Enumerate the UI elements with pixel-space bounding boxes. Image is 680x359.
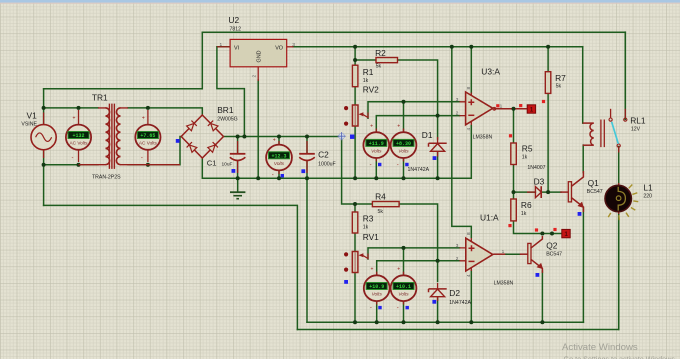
ground symbol bbox=[230, 192, 245, 199]
resistor R6 1k bbox=[511, 199, 517, 221]
wire inner bottom gnd bus bbox=[307, 321, 583, 323]
node R7 Q1 base bbox=[546, 190, 550, 194]
wire rail1 drop to relay contact bbox=[624, 32, 626, 119]
transistor Q2 BC547 bbox=[528, 236, 543, 273]
svg-text:1k: 1k bbox=[521, 211, 527, 217]
wire lamp bottom drop bbox=[618, 212, 620, 330]
svg-text:2: 2 bbox=[456, 256, 459, 262]
svg-text:+132: +132 bbox=[72, 133, 84, 139]
node U1 pin8 rail2 bbox=[450, 45, 454, 49]
probe squares red bbox=[496, 100, 556, 232]
wire VM-12V pins bbox=[278, 137, 280, 179]
svg-text:+11.9: +11.9 bbox=[369, 141, 384, 147]
svg-text:3: 3 bbox=[456, 97, 459, 103]
svg-text:VI: VI bbox=[234, 45, 239, 51]
wire R2 left bbox=[355, 59, 376, 61]
relay RL1 contact bbox=[609, 109, 627, 153]
wire R2 right to D1 column bbox=[398, 60, 438, 139]
svg-text:8: 8 bbox=[466, 232, 472, 235]
terminal box 1 upper bbox=[527, 105, 535, 114]
wire R5 top bbox=[513, 109, 515, 143]
svg-text:R4: R4 bbox=[375, 192, 386, 202]
wire R4 right to D2 column bbox=[399, 204, 438, 282]
node VM1 top bbox=[77, 106, 81, 110]
node VM-C bus bbox=[375, 320, 379, 324]
svg-text:Volts: Volts bbox=[274, 161, 285, 166]
origin marker bbox=[338, 132, 346, 140]
wire secondary bottom to BR1 left bbox=[128, 137, 182, 165]
wire relay contact riser bbox=[624, 32, 626, 119]
svg-text:-: - bbox=[370, 162, 372, 168]
svg-text:U1:A: U1:A bbox=[480, 213, 499, 223]
wire Q1 emitter drop bbox=[582, 208, 584, 323]
svg-text:220: 220 bbox=[643, 193, 652, 199]
wire rail2 drop to U1 pin8 bbox=[452, 47, 472, 238]
svg-text:Volts: Volts bbox=[398, 292, 409, 297]
svg-text:Volts: Volts bbox=[398, 149, 409, 154]
svg-text:R6: R6 bbox=[521, 200, 532, 210]
svg-text:L1: L1 bbox=[643, 182, 653, 192]
svg-text:-: - bbox=[272, 173, 274, 179]
wire U3 pin8 riser bbox=[470, 47, 472, 93]
svg-text:8: 8 bbox=[466, 87, 472, 90]
wire VM-D bottom bbox=[403, 302, 405, 323]
svg-text:C2: C2 bbox=[318, 150, 329, 160]
window top edge bar bbox=[0, 0, 680, 3]
svg-text:R2: R2 bbox=[375, 48, 386, 58]
svg-text:Q2: Q2 bbox=[546, 241, 558, 251]
voltmeter VM3 +12.3 bbox=[266, 138, 292, 179]
opamp U1:A bbox=[460, 238, 493, 271]
wire R3 to RV1 bbox=[354, 233, 356, 252]
svg-text:+: + bbox=[73, 116, 76, 122]
svg-text:4: 4 bbox=[466, 128, 472, 131]
svg-text:D3: D3 bbox=[534, 177, 545, 187]
wire gnd bus bbox=[202, 126, 471, 179]
node D1 bottom bbox=[436, 176, 440, 180]
svg-text:+12.3: +12.3 bbox=[271, 154, 286, 160]
node R2 R1 junction bbox=[353, 58, 357, 62]
node U2 gnd bbox=[256, 176, 260, 180]
svg-text:2: 2 bbox=[251, 75, 257, 78]
wire primary bottom row bbox=[44, 164, 98, 166]
node V1 top bbox=[42, 106, 46, 110]
wire RV2 bottom to gnd bus bbox=[354, 126, 356, 178]
svg-text:R1: R1 bbox=[363, 67, 374, 77]
svg-text:BR1: BR1 bbox=[217, 105, 234, 115]
wire U3 output row bbox=[495, 108, 528, 110]
lamp L1 220 bbox=[605, 183, 638, 220]
svg-text:Volts: Volts bbox=[372, 292, 383, 297]
voltmeter VM-C +10.9 bbox=[364, 267, 390, 312]
svg-text:5k: 5k bbox=[376, 64, 382, 70]
wire RV2 wiper to U3 pin3 bbox=[368, 102, 460, 119]
svg-text:+: + bbox=[397, 267, 400, 273]
node U1 pin4 bus bbox=[469, 320, 473, 324]
wire V1 top riser to mains row bbox=[43, 89, 45, 125]
wire rail2 regulated bbox=[293, 46, 583, 48]
svg-text:R5: R5 bbox=[522, 144, 533, 154]
wire VM-A bottom bbox=[375, 158, 377, 178]
bridge BR1 2W005G bbox=[181, 115, 223, 158]
svg-text:GND: GND bbox=[257, 50, 263, 62]
svg-text:1N4007: 1N4007 bbox=[527, 165, 545, 171]
wire U3 pin2 row bbox=[376, 116, 459, 132]
wire D3 anode bbox=[514, 191, 536, 193]
node VM2 bottom bbox=[146, 163, 150, 167]
wire secondary top row to BR1 top bbox=[128, 108, 202, 115]
node V1 bottom bbox=[42, 163, 46, 167]
wire V1 bottom riser bbox=[43, 150, 45, 205]
svg-text:R3: R3 bbox=[363, 214, 374, 224]
svg-text:+8.30: +8.30 bbox=[396, 141, 411, 147]
diode D3 1N4007 bbox=[527, 186, 541, 198]
node Q2 emitter bus bbox=[540, 320, 544, 324]
node VM3 bottom bbox=[277, 176, 281, 180]
svg-text:D2: D2 bbox=[449, 288, 460, 298]
svg-text:-: - bbox=[141, 156, 143, 162]
watermark Activate Windows bbox=[562, 342, 677, 359]
svg-text:+10.1: +10.1 bbox=[396, 284, 411, 290]
regulator U2 7812 bbox=[217, 39, 294, 81]
wire R1 to RV2 bbox=[354, 87, 356, 105]
svg-text:R7: R7 bbox=[555, 73, 566, 83]
wire RV1 bottom to bus bbox=[354, 273, 356, 323]
wire R5 to R6 bbox=[513, 165, 515, 200]
node VM-B bottom bbox=[402, 176, 406, 180]
wire U1 output to Q2 base bbox=[494, 253, 506, 255]
wire DC+ from BR1 right bbox=[224, 136, 342, 138]
voltmeter VM-B +8.30 bbox=[391, 124, 417, 169]
svg-text:1: 1 bbox=[220, 42, 223, 48]
svg-text:7812: 7812 bbox=[230, 27, 242, 33]
voltmeter VM2 AC +7.65 bbox=[135, 110, 160, 162]
marker squares blue bbox=[176, 135, 582, 310]
svg-text:-: - bbox=[397, 162, 399, 168]
svg-text:LM358N: LM358N bbox=[473, 134, 493, 140]
wire rail1 mains top rail bbox=[202, 31, 625, 33]
svg-text:+: + bbox=[370, 124, 373, 130]
relay RL1 coil bbox=[583, 120, 605, 148]
wire U2 VI riser bbox=[217, 47, 245, 137]
svg-text:1: 1 bbox=[502, 249, 505, 255]
svg-text:1: 1 bbox=[500, 104, 503, 110]
wire R7 top riser bbox=[547, 47, 549, 72]
zener D1 1N4742A bbox=[429, 137, 447, 157]
wire outer bottom return to lamp bbox=[297, 212, 618, 330]
svg-text:AC Volts: AC Volts bbox=[139, 141, 158, 146]
svg-text:VO: VO bbox=[275, 45, 283, 51]
zener D2 1N4742A bbox=[429, 283, 447, 301]
svg-text:BC547: BC547 bbox=[587, 189, 603, 195]
svg-text:RV1: RV1 bbox=[363, 232, 379, 242]
svg-text:-: - bbox=[397, 305, 399, 311]
svg-text:3: 3 bbox=[456, 243, 459, 249]
node R7 rail2 bbox=[546, 45, 550, 49]
wire C1 pins bbox=[237, 137, 239, 179]
capacitor C1 10uF bbox=[230, 141, 246, 173]
source V1 VSINE bbox=[31, 113, 56, 159]
node pin2 D2 bbox=[436, 259, 440, 263]
svg-text:+7.65: +7.65 bbox=[140, 133, 155, 139]
node terminal stub bbox=[550, 232, 554, 236]
svg-text:+: + bbox=[142, 116, 145, 122]
voltmeter VM-D +10.1 bbox=[391, 267, 417, 312]
resistor R7 5k bbox=[545, 72, 551, 94]
svg-text:4: 4 bbox=[466, 274, 472, 277]
svg-text:+: + bbox=[397, 124, 400, 130]
node VM3 top bbox=[277, 135, 281, 139]
node U3 out R5 bbox=[512, 107, 516, 111]
transformer TR1 TRAN-2P2S bbox=[79, 104, 181, 169]
pot RV1 bbox=[344, 252, 368, 273]
node R3 R4 bbox=[353, 202, 357, 206]
wire R7 bottom to Q1 base node bbox=[547, 93, 549, 192]
wire mains feed across top bbox=[44, 32, 203, 89]
resistor R5 1k bbox=[511, 143, 517, 165]
wire relay coil bottom to Q1 collector bbox=[582, 145, 584, 172]
svg-text:5k: 5k bbox=[556, 83, 562, 89]
svg-text:10uF: 10uF bbox=[222, 162, 233, 168]
svg-text:BC547: BC547 bbox=[546, 251, 562, 257]
node U3 pin8 rail2 bbox=[469, 45, 473, 49]
wire DC+ jog down to R4 row bbox=[342, 137, 373, 205]
wire C2 pins bbox=[306, 137, 308, 179]
svg-text:AC Volts: AC Volts bbox=[70, 141, 89, 146]
node R5 R6 D3 bbox=[512, 190, 516, 194]
voltmeter VM-A +11.9 bbox=[363, 124, 389, 169]
wire R6 bottom row bbox=[514, 221, 563, 234]
svg-text:C1: C1 bbox=[207, 159, 217, 168]
svg-text:-: - bbox=[72, 156, 74, 162]
resistor R3 1k bbox=[352, 212, 358, 233]
node C2 top bbox=[305, 135, 309, 139]
pot RV2 bbox=[344, 105, 368, 126]
node C2 bottom bbox=[305, 176, 309, 180]
wire U2 GND drop bbox=[257, 80, 259, 178]
svg-text:2: 2 bbox=[456, 111, 459, 117]
svg-text:TR1: TR1 bbox=[92, 93, 108, 103]
svg-text:-: - bbox=[370, 305, 372, 311]
svg-text:+: + bbox=[371, 267, 374, 273]
node pin3 VM-D bbox=[402, 246, 406, 250]
svg-text:5k: 5k bbox=[378, 209, 384, 215]
node RV2 bottom bbox=[353, 176, 357, 180]
wire VM-B bottom bbox=[403, 158, 405, 178]
svg-text:Q1: Q1 bbox=[588, 178, 600, 188]
svg-text:LM358N: LM358N bbox=[494, 280, 514, 286]
resistor R1 1k bbox=[352, 65, 358, 87]
svg-text:U3:A: U3:A bbox=[481, 67, 500, 77]
node C1 bottom gnd bbox=[236, 176, 240, 180]
svg-text:2W005G: 2W005G bbox=[217, 116, 237, 122]
wire VM-C bottom bbox=[376, 302, 378, 323]
svg-text:12V: 12V bbox=[631, 126, 641, 132]
wire mains return bottom bbox=[44, 205, 298, 329]
wire D2 bottom to bus bbox=[437, 297, 439, 322]
wire primary top row bbox=[44, 107, 98, 109]
node VM-A bottom bbox=[374, 176, 378, 180]
terminal box 1 lower bbox=[562, 229, 570, 238]
node VI riser bbox=[242, 135, 246, 139]
svg-text:+: + bbox=[273, 138, 276, 144]
resistor R2 5k bbox=[376, 58, 398, 63]
node R1 top rail2 bbox=[353, 45, 357, 49]
capacitor C2 1000uF bbox=[299, 141, 315, 173]
svg-text:U2: U2 bbox=[228, 15, 239, 25]
node D2 bus bbox=[436, 320, 440, 324]
wire ground stub bbox=[237, 178, 239, 192]
node VM-D bus bbox=[402, 320, 406, 324]
wire U1 pin2 row bbox=[377, 261, 460, 275]
node pin2 D1 bbox=[436, 114, 440, 118]
svg-text:D1: D1 bbox=[422, 130, 433, 140]
svg-text:RV2: RV2 bbox=[363, 85, 379, 95]
svg-text:1N4742A: 1N4742A bbox=[449, 300, 471, 306]
svg-text:1000uF: 1000uF bbox=[318, 162, 336, 168]
wire gnd riser to bottom bus bbox=[306, 178, 308, 322]
svg-text:3: 3 bbox=[292, 42, 295, 48]
svg-text:1k: 1k bbox=[363, 78, 369, 84]
svg-text:Volts: Volts bbox=[371, 149, 382, 154]
voltmeter VM1 AC +132 bbox=[66, 110, 91, 162]
wire VM-B top riser bbox=[403, 102, 405, 132]
svg-text:Activate Windows: Activate Windows bbox=[562, 342, 638, 353]
svg-text:TRAN-2P2S: TRAN-2P2S bbox=[92, 175, 121, 181]
transistor Q1 BC547 bbox=[568, 171, 583, 212]
node RV1 bottom bus bbox=[353, 320, 357, 324]
wire D3 cathode to Q1 base bbox=[542, 191, 561, 193]
node C1 top bbox=[236, 135, 240, 139]
wire R3 top bbox=[354, 204, 356, 212]
svg-text:RL1: RL1 bbox=[630, 115, 646, 125]
node Q2 collector bbox=[540, 232, 544, 236]
svg-text:+10.9: +10.9 bbox=[369, 284, 384, 290]
opamp U3:A bbox=[460, 92, 496, 125]
svg-text:VSINE: VSINE bbox=[21, 122, 37, 128]
wire VM-D top riser bbox=[403, 248, 405, 275]
svg-text:1N4742A: 1N4742A bbox=[408, 167, 430, 173]
wire Q2 emitter drop bbox=[541, 271, 543, 322]
wire rail2 end drop to relay coil bbox=[582, 47, 584, 123]
node pin3 VM-B bbox=[402, 100, 406, 104]
resistor R4 5k bbox=[372, 202, 399, 207]
node VM1 bottom bbox=[77, 163, 81, 167]
svg-text:Go to Settings to activate Win: Go to Settings to activate Windows. bbox=[564, 355, 677, 359]
wire D1 bottom to gnd bus bbox=[437, 153, 439, 179]
svg-text:1k: 1k bbox=[522, 155, 528, 161]
wire U1 pin4 drop bbox=[470, 271, 472, 323]
wire relay common to lamp bbox=[618, 147, 620, 186]
node VM2 top bbox=[146, 106, 150, 110]
wire R1 top riser bbox=[354, 47, 356, 65]
svg-text:V1: V1 bbox=[27, 110, 38, 120]
svg-text:1k: 1k bbox=[363, 224, 369, 230]
wire RV1 wiper to U1 pin3 bbox=[368, 248, 460, 259]
